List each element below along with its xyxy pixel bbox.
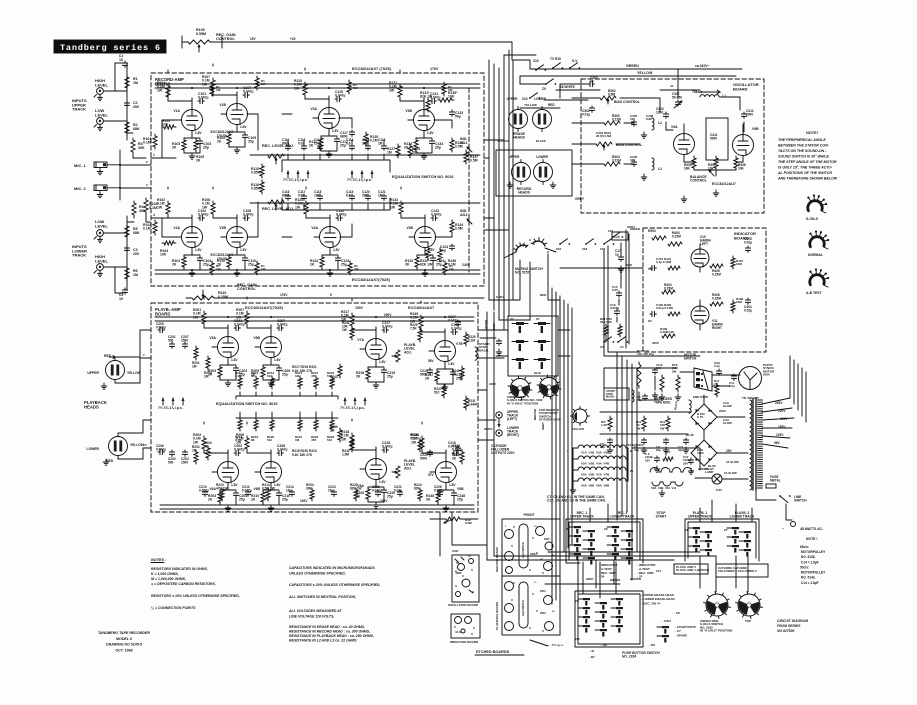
- svg-text:245V: 245V: [775, 401, 783, 405]
- svg-text:R2421.5M: R2421.5M: [342, 449, 350, 456]
- label muting switch: [515, 267, 543, 275]
- wire long cross bottom: [487, 552, 716, 584]
- svg-text:ZT: ZT: [724, 528, 728, 532]
- cathode capacitor of V4A: [335, 256, 349, 267]
- svg-text:V7B: V7B: [456, 342, 463, 346]
- resistor R307: [708, 156, 718, 170]
- wire playback top bus: [155, 316, 474, 321]
- resistor R127: [387, 144, 400, 158]
- rotary sos underside 2: [704, 592, 731, 619]
- wire red line: [560, 263, 643, 268]
- resistor R229: [464, 332, 476, 346]
- resistor aux top 424: [442, 82, 453, 96]
- voltage label V1A: [195, 131, 202, 135]
- cathode capacitor of V6A: [233, 491, 247, 502]
- triode V3A: [313, 96, 340, 136]
- svg-text:C401 R4010.1µ 0.15M: C401 R4010.1µ 0.15M: [656, 257, 672, 264]
- resistor R134b: [450, 220, 463, 234]
- equalization switch arrows playback-right: [340, 397, 367, 410]
- label lower track right: [507, 426, 520, 437]
- notes block 2: [288, 566, 380, 643]
- cathode capacitor of V7B: [450, 370, 464, 381]
- sound-on-sound switch contacts: [508, 316, 558, 376]
- cathode capacitor of V1A: [197, 139, 211, 150]
- svg-text:BALANCECONTROL: BALANCECONTROL: [690, 175, 707, 183]
- svg-text:125V: 125V: [776, 433, 784, 437]
- capacitor output coupling: [480, 338, 541, 386]
- resistor R220 bottom row: [350, 483, 362, 501]
- playback equalization RC lower col5: [311, 412, 319, 442]
- label playb level adj upper: [392, 343, 416, 362]
- capacitor C124: [440, 244, 455, 253]
- svg-text:28 WHITE: 28 WHITE: [560, 85, 575, 89]
- plate resistor of V4B: [390, 198, 403, 216]
- svg-text:ZII: ZII: [604, 527, 608, 531]
- label green2: [698, 467, 737, 475]
- label V1B: [219, 103, 226, 107]
- triode V7A: [360, 327, 387, 367]
- cathode capacitor of V5B: [276, 366, 290, 377]
- resistor R403: [668, 231, 682, 246]
- erase head upper: [509, 107, 528, 132]
- pushbutton playb1 contacts: [685, 527, 712, 557]
- resistor R15 main: [637, 349, 658, 398]
- svg-text:IND.ADJ.: IND.ADJ.: [460, 209, 468, 217]
- svg-text:S-ON-S: S-ON-S: [806, 217, 819, 221]
- jack J4 high level lower: [94, 264, 103, 277]
- resistor R407: [731, 256, 744, 269]
- label 28 white: [556, 85, 600, 90]
- indicator board outline: [643, 228, 766, 352]
- cathode capacitor of V6B: [276, 491, 290, 502]
- svg-text:RED: RED: [548, 103, 555, 107]
- svg-text:C1168000: C1168000: [282, 190, 290, 197]
- resistor R408: [731, 297, 744, 313]
- wire stage links upper: [247, 114, 452, 150]
- wire record bus bottom: [155, 269, 480, 274]
- wire record input upper: [151, 120, 176, 158]
- label V5A: [209, 336, 216, 340]
- svg-text:2s: 2s: [630, 469, 634, 473]
- label playb2 header: [730, 511, 755, 519]
- label ind adj upper: [460, 137, 472, 152]
- svg-text:GREY: GREY: [492, 322, 496, 330]
- cathode wire V6B: [263, 490, 279, 511]
- label start stop magn: [475, 342, 490, 360]
- svg-text:FOR REMOTESTART/STOPSWITCH,OUT: FOR REMOTESTART/STOPSWITCH,OUTSIDE VIEW: [539, 408, 561, 422]
- plate wire V3B: [400, 70, 424, 101]
- svg-text:ETCHED BOARDS: ETCHED BOARDS: [476, 650, 510, 654]
- plate wire V4A: [306, 187, 330, 218]
- resistor aux top 329: [347, 80, 358, 94]
- pushbutton playb2 contacts: [724, 527, 751, 557]
- svg-text:BLACK: BLACK: [536, 139, 546, 143]
- label cathode follower outputs: [491, 444, 515, 455]
- label push button switch: [622, 651, 660, 659]
- voltage label V2A: [195, 248, 202, 252]
- label high level 1: [95, 78, 108, 87]
- sos switch wires: [496, 330, 570, 356]
- resistor R227: [434, 384, 446, 398]
- label playb level adj lower: [392, 459, 416, 478]
- plate resistor of V1B: [202, 75, 215, 93]
- resistor R406: [710, 293, 723, 306]
- resistor R225: [410, 323, 422, 342]
- heater row V6: [573, 478, 628, 488]
- cathode capacitor of V3A: [334, 137, 348, 148]
- capacitor C307: [670, 69, 682, 108]
- voltage label V7B: [448, 362, 455, 366]
- capacitor C310: [656, 107, 669, 118]
- cathode wire V3B: [416, 138, 432, 159]
- plate wire V2B: [213, 187, 237, 218]
- svg-text:A-B TEST: A-B TEST: [806, 291, 823, 295]
- wire brown grey risers: [484, 312, 496, 560]
- svg-text:LOWERTRACK(RIGHT): LOWERTRACK(RIGHT): [507, 426, 520, 437]
- label record heads: [517, 187, 532, 195]
- svg-text:MOTORSWITCH: MOTORSWITCH: [684, 353, 697, 360]
- muting switch arcs: [504, 238, 556, 259]
- resistor R3: [131, 138, 145, 154]
- cathode resistor of V6A: [208, 490, 222, 504]
- triode V3B: [408, 98, 435, 138]
- svg-text:INPUTSUPPERTRACK: INPUTSUPPERTRACK: [72, 98, 87, 112]
- svg-text:176V: 176V: [430, 67, 439, 71]
- coupling capacitor of V6A: [234, 444, 244, 456]
- capacitor C226 bottom row: [434, 485, 444, 496]
- svg-text:PLAYBACK BOARD: PLAYBACK BOARD: [495, 601, 499, 630]
- plate wire V1A: [168, 70, 192, 101]
- resistor R4: [132, 201, 146, 217]
- voltage label V3B: [427, 131, 434, 135]
- svg-text:C2195000: C2195000: [420, 369, 428, 376]
- svg-text:165V: 165V: [778, 425, 786, 429]
- capacitor C4: [119, 288, 128, 301]
- svg-text:V5A: V5A: [209, 336, 216, 340]
- wire vertical bus group: [489, 50, 513, 320]
- resistor R102: [143, 220, 157, 235]
- svg-text:L2: L2: [658, 121, 662, 125]
- cathode wire V4B: [417, 255, 433, 276]
- label lower erase: [534, 97, 547, 101]
- svg-text:R1370.5M: R1370.5M: [470, 155, 478, 163]
- voltage label V4A: [333, 248, 340, 252]
- wire motor area: [604, 356, 740, 400]
- svg-text:RESISTORS ± 10% UNLESS OTHERWI: RESISTORS ± 10% UNLESS OTHERWISE SPECIFI…: [151, 594, 240, 598]
- playback equalization RC lower col1: [235, 412, 243, 442]
- papst motor: [739, 363, 775, 390]
- resistor R101: [143, 134, 157, 149]
- svg-text:58V: 58V: [428, 359, 435, 363]
- coupling capacitor of V1B: [243, 86, 253, 98]
- cathode capacitor of V8B: [451, 491, 465, 502]
- svg-text:Z10: Z10: [533, 59, 539, 63]
- capacitor C17: [615, 243, 624, 272]
- svg-text:MIC. 2: MIC. 2: [74, 186, 87, 191]
- resistor R16: [672, 363, 681, 400]
- svg-text:1.8V: 1.8V: [195, 248, 202, 252]
- label record-amp board: [155, 77, 184, 87]
- switch Z9: [520, 79, 556, 91]
- wire bundle indicator down: [617, 352, 637, 556]
- resistor R15b: [663, 450, 673, 461]
- label upper erase: [507, 97, 519, 101]
- wire heater sides: [567, 448, 634, 493]
- svg-text:GREY: GREY: [496, 295, 505, 299]
- voltage label V6A: [231, 483, 238, 487]
- bridge rectifier B250: [691, 404, 717, 430]
- svg-text:S0: S0: [648, 267, 652, 271]
- svg-text:UPPERTRACK(LEFT): UPPERTRACK(LEFT): [507, 410, 519, 421]
- resistor R14: [660, 416, 670, 431]
- tap wires up: [790, 356, 806, 422]
- resistor R2: [125, 120, 140, 135]
- triode V4B: [409, 215, 436, 255]
- svg-text:+15: +15: [290, 37, 296, 41]
- resistor R1: [125, 75, 138, 90]
- resistor R124: [408, 144, 420, 158]
- note frequency block: [800, 537, 826, 585]
- stator icon a-b test: [806, 268, 829, 295]
- svg-text:V2B: V2B: [219, 226, 226, 230]
- playback equalization RC lower col2: [251, 412, 259, 442]
- label blue black: [673, 400, 716, 468]
- wire erase frame: [575, 591, 643, 647]
- coupling capacitor of V2A: [198, 209, 208, 221]
- coupling capacitor of V6B: [277, 444, 287, 456]
- capacitor C9: [645, 452, 660, 472]
- label yellow black: [497, 139, 546, 143]
- resistor R306: [684, 156, 696, 170]
- equalization capacitor upper col6: [378, 138, 387, 160]
- playback head upper: [87, 354, 140, 383]
- cathode resistor of V5B: [251, 365, 265, 379]
- capacitor C3: [124, 246, 139, 256]
- wire plate feeds upper: [168, 84, 400, 98]
- playback equalization RC col5: [311, 371, 319, 396]
- voltage label V5A: [231, 358, 238, 362]
- label V4A: [311, 226, 318, 230]
- label balance control: [690, 170, 714, 183]
- ground record heads: [507, 182, 556, 188]
- resistor R245: [452, 366, 464, 380]
- svg-text:→R8: →R8: [600, 643, 607, 647]
- wire grid bus upper: [176, 114, 413, 120]
- resistor R303: [604, 114, 621, 125]
- resistor R204 bottom row: [306, 483, 314, 501]
- resistor R404: [662, 283, 675, 294]
- svg-text:1.8V: 1.8V: [274, 483, 281, 487]
- coupling capacitor of V3A: [335, 90, 345, 102]
- label rec level adj upper: [262, 144, 294, 164]
- resistor R231: [464, 396, 477, 410]
- wire yellow bus: [520, 71, 736, 76]
- resistor R115: [251, 164, 264, 178]
- label c8 c307: [660, 611, 680, 623]
- cathode wire V6A: [220, 490, 236, 511]
- cathode wire V5B: [263, 365, 279, 386]
- label low level 1: [95, 108, 108, 117]
- plate wire V6A: [204, 422, 228, 453]
- svg-text:GREY: GREY: [627, 225, 636, 229]
- svg-text:YELLOW: YELLOW: [127, 371, 141, 375]
- capacitor C219: [420, 368, 433, 376]
- svg-text:1.8V: 1.8V: [195, 131, 202, 135]
- label V3A: [310, 107, 317, 111]
- switch Z19: [608, 229, 623, 238]
- wire pb frame rec: [566, 519, 643, 563]
- cathode resistor of V8B: [426, 490, 440, 504]
- label ECC83 playback top: [245, 305, 364, 310]
- wire bottom bus: [222, 293, 484, 298]
- label oscillator board: [733, 82, 759, 91]
- resistor R201: [192, 346, 200, 368]
- svg-text:V1A: V1A: [173, 109, 180, 113]
- svg-text:25V: 25V: [726, 449, 733, 453]
- triode V11: [691, 300, 709, 330]
- capacitor C216 bottom row: [372, 485, 382, 496]
- svg-text:EQU SWITCH: EQU SWITCH: [522, 542, 525, 558]
- plate wire V5A: [204, 297, 228, 328]
- wire pb mid links: [578, 556, 748, 598]
- label V2A: [173, 226, 180, 230]
- svg-text:OSCILLATOR BOARD: OSCILLATOR BOARD: [448, 603, 478, 607]
- label end stop: [693, 395, 708, 399]
- label 35v green: [626, 443, 680, 448]
- resistor R103: [162, 119, 176, 129]
- triode V4A: [314, 215, 341, 255]
- triode V5A: [212, 325, 239, 365]
- label R217 R219 R221: [292, 365, 317, 373]
- record head lower: [534, 160, 553, 185]
- label playback-amp board: [155, 307, 181, 317]
- svg-text:C402 R4020.01µ 0.15M: C402 R4020.01µ 0.15M: [656, 303, 673, 310]
- svg-text:7½ 3¾ 1⅞ i.p.s.: 7½ 3¾ 1⅞ i.p.s.: [340, 406, 365, 410]
- capacitor C305 L2: [630, 114, 662, 130]
- plate wire V5B: [247, 297, 271, 328]
- capacitor C217: [448, 315, 461, 326]
- label mic2: [74, 186, 87, 191]
- svg-text:S-V: S-V: [572, 59, 578, 63]
- svg-text:C4050.02µ: C4050.02µ: [744, 237, 752, 244]
- label V9 V10: [651, 486, 677, 496]
- label playb amp box: [674, 564, 709, 574]
- cathode wire V8B: [438, 490, 454, 511]
- jack upper track output: [496, 412, 502, 428]
- wire osc top: [660, 90, 740, 110]
- svg-text:ERASEHEADS: ERASEHEADS: [513, 132, 526, 140]
- resistor R204b: [204, 441, 212, 460]
- svg-text:C4040.02µ: C4040.02µ: [744, 305, 752, 312]
- resistor R202: [192, 445, 200, 464]
- label equalization switch 5019: [216, 402, 278, 406]
- label upper rec: [509, 155, 521, 159]
- resistor R21 R20: [600, 317, 622, 337]
- wire input lower: [104, 214, 150, 293]
- svg-text:NOTE !: NOTE !: [806, 537, 818, 541]
- wire lamp green: [640, 448, 748, 479]
- svg-text:V1A V1B V3A V3B: V1A V1B V3A V3B: [581, 451, 610, 455]
- svg-text:C3122000: C3122000: [746, 109, 754, 116]
- svg-text:R304: R304: [648, 229, 656, 233]
- cathode resistor of V7B: [425, 369, 439, 383]
- svg-text:STOPSTART: STOPSTART: [656, 511, 667, 519]
- cathode wire V2A: [184, 255, 200, 276]
- coupling capacitor of V7A: [382, 321, 392, 333]
- line switch: [779, 495, 807, 502]
- plate resistor of V7B: [410, 312, 423, 330]
- svg-text:S7: S7: [536, 317, 540, 321]
- svg-text:15V: 15V: [250, 37, 257, 41]
- wire stage links lower: [247, 202, 452, 237]
- label V7B: [456, 342, 463, 346]
- svg-text:METALIZEDTAPE END.: METALIZEDTAPE END.: [654, 397, 673, 404]
- svg-text:C3020.01µ: C3020.01µ: [582, 109, 590, 116]
- equalization switch arrows playback-left: [158, 397, 185, 410]
- label etched osc: [448, 603, 478, 607]
- svg-text:R234: R234: [540, 612, 546, 615]
- label 48 watts: [800, 527, 823, 531]
- cathode capacitor of V4B: [430, 256, 444, 267]
- cathode resistor of V2B: [217, 255, 231, 269]
- cathode wire V1B: [229, 132, 245, 153]
- wire bridge buses: [600, 395, 748, 453]
- capacitor C12: [683, 455, 694, 474]
- label ECC83 bottom: [352, 277, 390, 282]
- label start stop spare: [657, 625, 696, 643]
- resistor R226: [410, 433, 422, 452]
- svg-text:1.8V: 1.8V: [240, 125, 247, 129]
- svg-text:C110: C110: [119, 54, 124, 62]
- plate resistor of V3B: [389, 81, 402, 99]
- label ECC83 V2: [211, 253, 234, 261]
- svg-text:V4A: V4A: [311, 226, 318, 230]
- label indicator arrows 2: [636, 563, 656, 579]
- svg-text:1: 1: [153, 153, 155, 157]
- svg-text:C307: C307: [452, 549, 459, 553]
- plate wire V8A: [352, 419, 376, 450]
- wire playback to etched: [430, 513, 487, 556]
- heater row V5: [573, 467, 628, 477]
- svg-text:240V: 240V: [462, 263, 471, 267]
- svg-text:C3101000: C3101000: [656, 107, 664, 114]
- svg-text:YELLOW: YELLOW: [572, 427, 584, 431]
- svg-text:L3: L3: [658, 167, 662, 171]
- equalization capacitor upper col1: [282, 138, 291, 160]
- svg-text:57V: 57V: [428, 473, 435, 477]
- svg-text:Z18: Z18: [600, 247, 606, 251]
- playback-amp board outline: [151, 303, 478, 512]
- label V2B: [219, 226, 226, 230]
- capacitor C404: [744, 298, 752, 312]
- capacitor C8: [656, 438, 669, 453]
- svg-text:EQUALIZATION SWITCH NO. 5019: EQUALIZATION SWITCH NO. 5019: [216, 402, 278, 406]
- jack J1 high level upper: [94, 88, 103, 101]
- voltage label V8A: [379, 480, 386, 484]
- label etched ind: [450, 640, 479, 644]
- wire mic leads: [113, 150, 151, 200]
- voltage label V3A: [332, 129, 339, 133]
- label upper erase head arrow: [640, 593, 676, 605]
- label V6B: [253, 487, 260, 491]
- cathode resistor of V3A: [309, 136, 323, 150]
- cathode resistor of V1A: [172, 138, 186, 152]
- label 25V: [726, 449, 739, 464]
- label top: [543, 393, 549, 397]
- label V7A: [357, 338, 364, 342]
- capacitor C222 bottom row: [394, 485, 403, 496]
- svg-text:220V: 220V: [778, 409, 786, 413]
